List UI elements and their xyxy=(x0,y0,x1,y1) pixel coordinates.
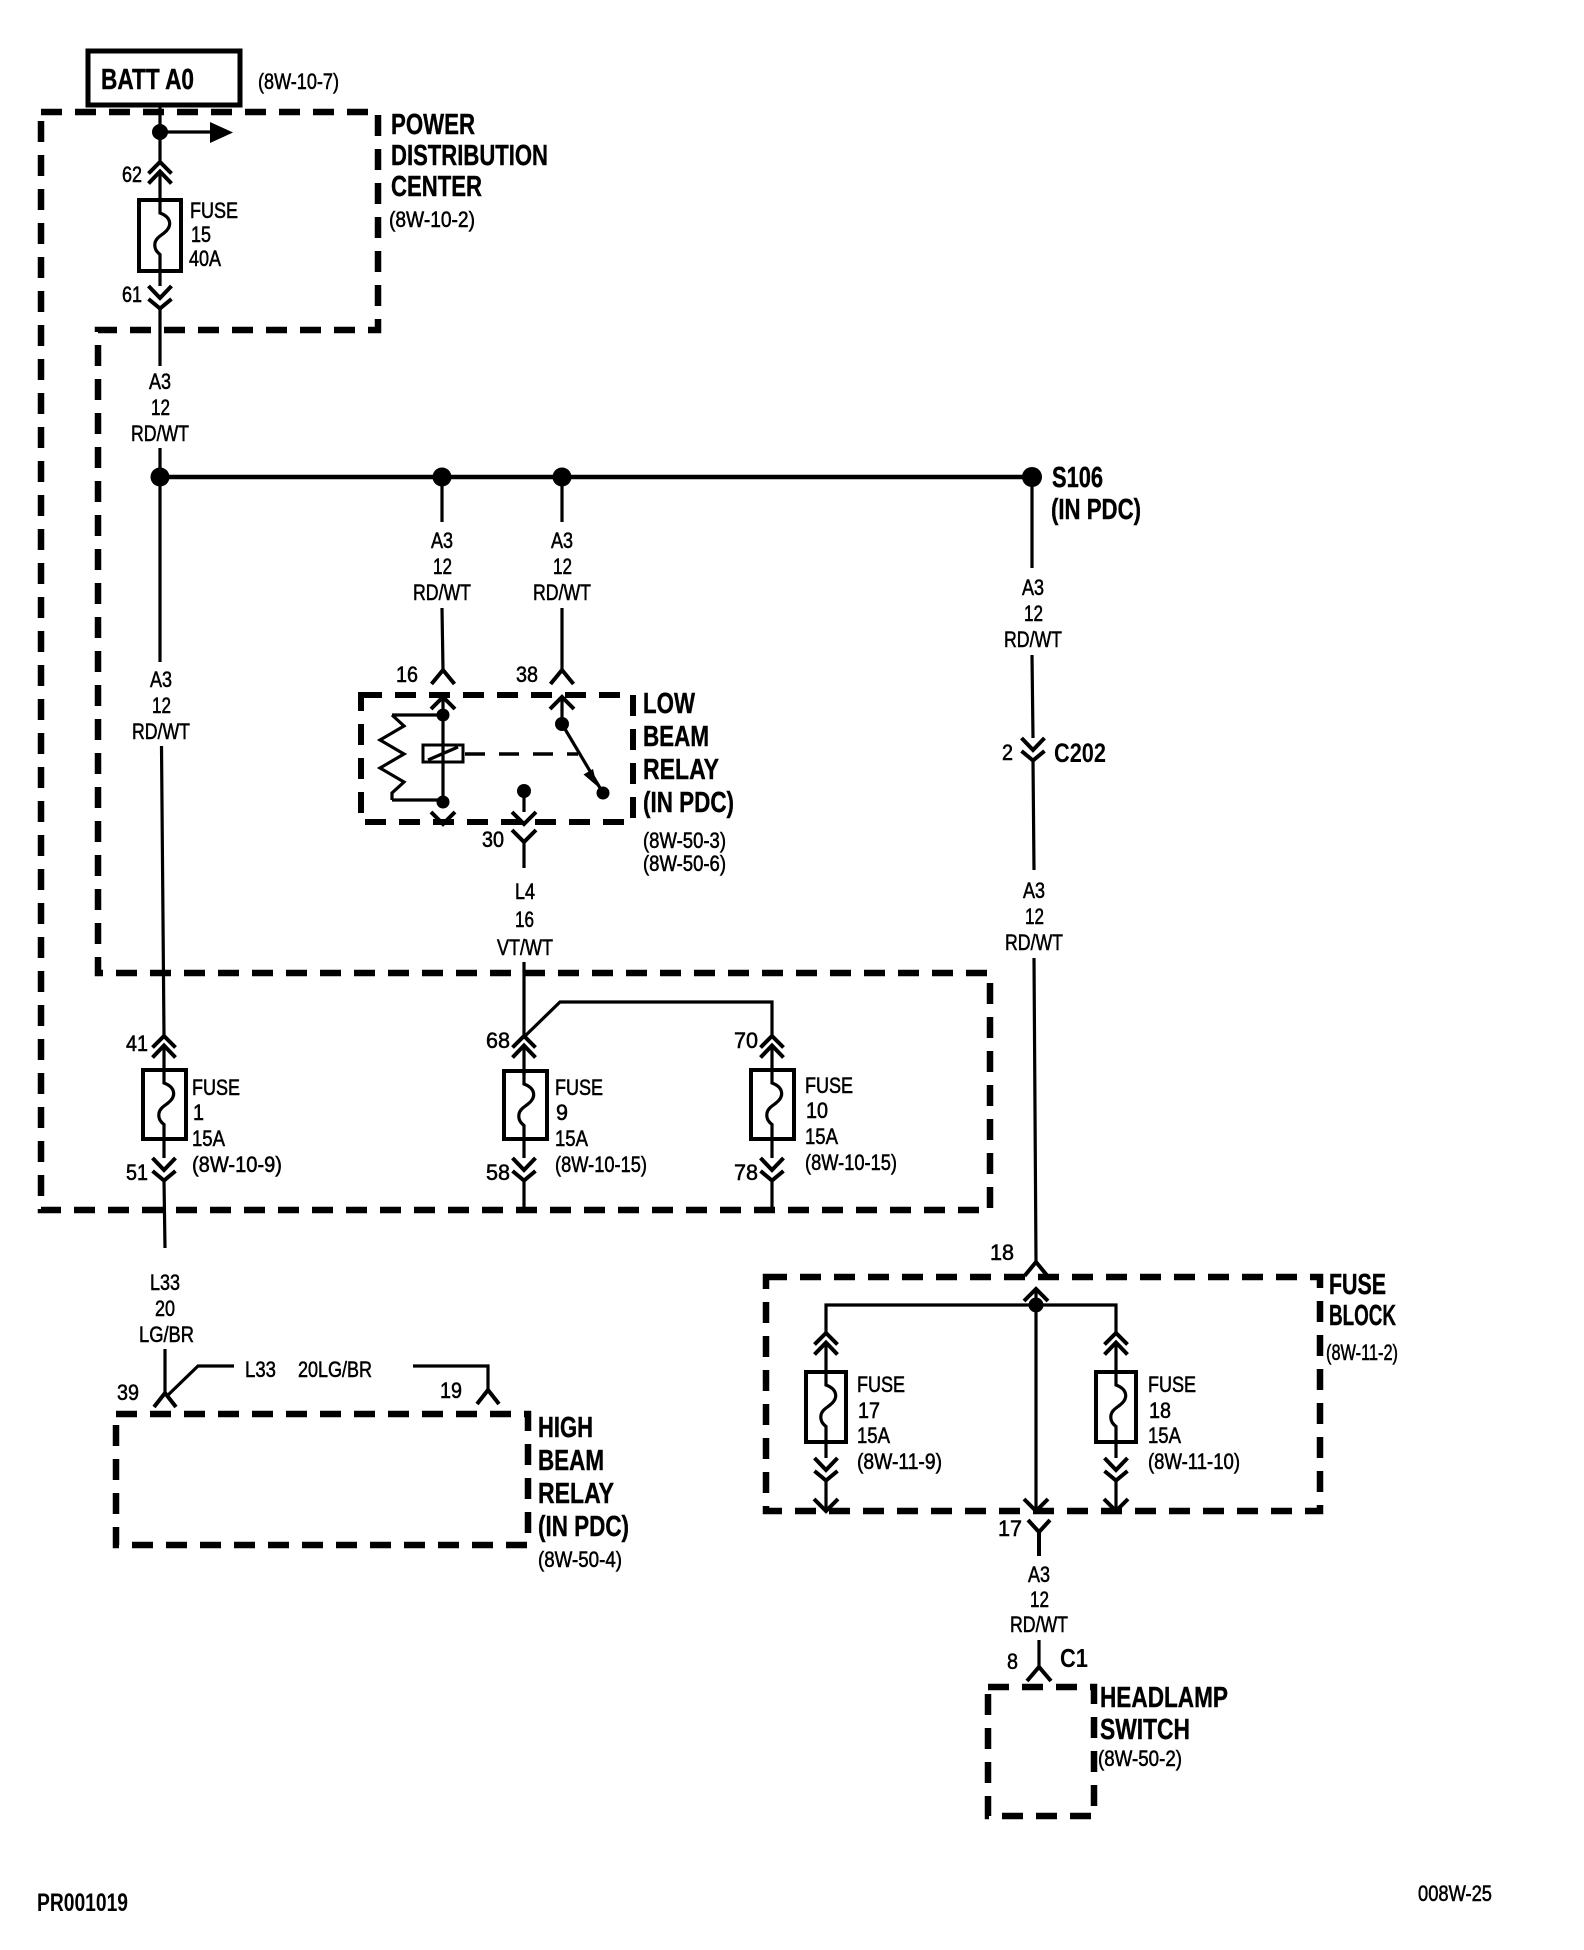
wire below pin 30 xyxy=(522,842,525,868)
wire into fuse 9 xyxy=(522,1046,525,1076)
svg-text:S106: S106 xyxy=(1052,462,1103,494)
connector pin 18 at fuse block edge xyxy=(1024,1262,1048,1301)
svg-text:2: 2 xyxy=(1002,740,1013,765)
wire branch to fuse 10 xyxy=(524,1002,772,1037)
wire below C202 xyxy=(1033,761,1034,871)
svg-text:FUSE: FUSE xyxy=(1329,1269,1386,1301)
svg-text:15A: 15A xyxy=(1148,1423,1181,1448)
connector pin 70 xyxy=(761,1036,784,1058)
wire stub to bus xyxy=(158,448,161,477)
wire down to fuse block xyxy=(1034,958,1036,1262)
svg-text:(IN PDC): (IN PDC) xyxy=(643,787,734,819)
svg-text:VT/WT: VT/WT xyxy=(497,935,553,960)
svg-text:A3: A3 xyxy=(1023,878,1045,903)
relay switch blade xyxy=(562,724,603,793)
fuse 18 pin arrow at edge xyxy=(1104,1499,1128,1511)
node bus branch low beam relay contact xyxy=(553,468,572,487)
wire into fuse 18 xyxy=(1114,1343,1117,1375)
svg-text:15A: 15A xyxy=(192,1126,225,1151)
svg-text:DISTRIBUTION: DISTRIBUTION xyxy=(391,140,548,172)
connector pin 62 xyxy=(149,162,172,184)
wire label A3 12 RD/WT (coil branch) xyxy=(413,528,471,605)
svg-text:19: 19 xyxy=(440,1378,462,1403)
wire fuse 18 to block edge xyxy=(1114,1442,1117,1508)
connector fuse 17 bottom xyxy=(815,1458,838,1481)
connector fuse 18 bottom xyxy=(1105,1458,1128,1481)
svg-text:20: 20 xyxy=(155,1296,175,1321)
wire down to pin 39 xyxy=(163,1349,166,1393)
svg-text:A3: A3 xyxy=(1028,1562,1050,1587)
wire L4 down to fuse row xyxy=(522,962,525,1036)
svg-text:12: 12 xyxy=(1030,1587,1049,1612)
svg-text:FUSE: FUSE xyxy=(857,1372,905,1397)
fuse F9 box xyxy=(504,1071,547,1139)
svg-text:FUSE: FUSE xyxy=(190,198,238,223)
svg-text:FUSE: FUSE xyxy=(555,1075,603,1100)
fuse F17 box xyxy=(806,1372,846,1442)
svg-text:(8W-50-6): (8W-50-6) xyxy=(643,851,726,876)
fuse 15 value label FUSE 15 40A xyxy=(189,198,238,271)
fuse 1 element curve xyxy=(159,1070,174,1139)
label HEADLAMP SWITCH (8W-50-2) xyxy=(1098,1682,1228,1771)
svg-text:17: 17 xyxy=(858,1398,880,1423)
fuse 10 element curve xyxy=(767,1070,782,1139)
connector pin 17 female xyxy=(1028,1520,1050,1556)
wire label L4 16 VT/WT xyxy=(497,879,553,960)
svg-text:A3: A3 xyxy=(150,667,172,692)
fuse block dashed box xyxy=(766,1277,1320,1511)
wire into fuse 10 xyxy=(770,1046,773,1073)
fuse 17 element curve xyxy=(821,1372,836,1442)
connector pin 51 xyxy=(153,1158,176,1181)
svg-text:A3: A3 xyxy=(1022,575,1044,600)
svg-text:16: 16 xyxy=(515,907,534,932)
svg-text:1: 1 xyxy=(193,1100,204,1125)
svg-text:RELAY: RELAY xyxy=(538,1478,614,1510)
wire fuse 17 to block edge xyxy=(824,1442,827,1508)
fuse 15 element curve xyxy=(155,200,170,271)
svg-text:18: 18 xyxy=(990,1240,1014,1265)
wire branch to fuses 17 and 18 xyxy=(826,1305,1116,1333)
fuse F10 box xyxy=(751,1070,794,1139)
node pin 30 xyxy=(517,784,531,798)
svg-text:A3: A3 xyxy=(551,528,573,553)
battery feed B+ box BATT A0 xyxy=(88,51,240,105)
svg-text:LOW: LOW xyxy=(643,688,695,720)
svg-text:15A: 15A xyxy=(555,1126,588,1151)
wire S106 down xyxy=(1030,487,1033,568)
svg-text:L33: L33 xyxy=(245,1357,276,1382)
fuse 18 element curve xyxy=(1111,1372,1126,1442)
label POWER DISTRIBUTION CENTER (8W-10-2) xyxy=(389,109,548,232)
arrow to other circuits xyxy=(160,130,212,133)
svg-text:12: 12 xyxy=(151,395,170,420)
svg-text:15A: 15A xyxy=(857,1423,890,1448)
svg-text:12: 12 xyxy=(553,554,572,579)
fuse 10 value label FUSE 10 15A (8W-10-15) xyxy=(805,1073,897,1175)
wire label A3 12 RD/WT (S106 branch) xyxy=(1004,575,1062,652)
fuse 17 pin arrow at edge xyxy=(814,1499,838,1511)
wire down to pin 16 xyxy=(442,608,443,670)
svg-text:(8W-10-15): (8W-10-15) xyxy=(805,1150,897,1175)
wire from fuse 15 to bus xyxy=(158,271,161,366)
svg-text:(8W-50-3): (8W-50-3) xyxy=(643,828,726,853)
dashed actuator link xyxy=(465,752,578,756)
wire label A3 12 RD/WT (contact branch) xyxy=(533,528,591,605)
svg-text:(8W-11-2): (8W-11-2) xyxy=(1326,1340,1398,1365)
connector fuse 18 top xyxy=(1105,1333,1128,1355)
svg-text:16: 16 xyxy=(396,662,418,687)
node S106 xyxy=(1022,467,1042,487)
svg-text:61: 61 xyxy=(122,282,142,307)
svg-text:78: 78 xyxy=(734,1160,758,1185)
svg-text:RD/WT: RD/WT xyxy=(533,580,591,605)
svg-text:CENTER: CENTER xyxy=(391,171,482,203)
connector C202 xyxy=(1022,738,1045,761)
svg-text:15A: 15A xyxy=(805,1124,838,1149)
wire label A3 12 RD/WT (to headlamp switch) xyxy=(1010,1562,1068,1637)
svg-text:(8W-10-15): (8W-10-15) xyxy=(555,1152,647,1177)
svg-text:17: 17 xyxy=(998,1516,1022,1541)
svg-text:RD/WT: RD/WT xyxy=(1010,1612,1068,1637)
connector pin 58 xyxy=(513,1158,536,1181)
svg-text:(8W-10-2): (8W-10-2) xyxy=(389,207,475,232)
svg-text:(8W-50-2): (8W-50-2) xyxy=(1098,1746,1182,1771)
svg-text:40A: 40A xyxy=(189,246,221,271)
label LOW BEAM RELAY (IN PDC) (8W-50-3) (8W-50-6) xyxy=(643,688,734,876)
svg-text:41: 41 xyxy=(126,1031,148,1056)
fuse 9 element curve xyxy=(519,1071,534,1139)
node at top of PDC feed xyxy=(152,124,168,140)
fuse 17 value label FUSE 17 15A (8W-11-9) xyxy=(857,1372,942,1474)
connector pin 68 xyxy=(513,1036,536,1058)
svg-text:12: 12 xyxy=(1024,601,1043,626)
fuse F1 box xyxy=(143,1070,186,1139)
wire into fuse 1 xyxy=(162,1046,165,1073)
svg-text:FUSE: FUSE xyxy=(1148,1372,1196,1397)
svg-text:FUSE: FUSE xyxy=(805,1073,853,1098)
svg-text:(IN PDC): (IN PDC) xyxy=(1051,494,1141,526)
wire bus down to relay contact branch xyxy=(560,477,563,522)
label HIGH BEAM RELAY (IN PDC) (8W-50-4) xyxy=(538,1412,629,1572)
svg-text:SWITCH: SWITCH xyxy=(1100,1714,1190,1746)
node fuse block junction xyxy=(1029,1298,1044,1313)
relay coil K1 xyxy=(423,745,463,762)
connector pin 61 xyxy=(149,286,172,309)
wire pin16 into coil node xyxy=(441,697,444,802)
svg-text:70: 70 xyxy=(734,1028,758,1053)
fuse F15 box xyxy=(139,200,181,271)
fuse 1 value label FUSE 1 15A (8W-10-9) xyxy=(192,1075,282,1177)
connector pin 19 female xyxy=(477,1390,499,1404)
svg-text:38: 38 xyxy=(516,662,538,687)
svg-text:20LG/BR: 20LG/BR xyxy=(298,1357,372,1382)
connector pin 8 female xyxy=(1027,1667,1051,1681)
splice bus S106 xyxy=(160,475,1032,480)
wire from fuse 1 down through PDC edge xyxy=(164,1139,165,1248)
wire label pointer L33 20LG/BR xyxy=(167,1357,488,1396)
wire from BATT A0 down to node xyxy=(158,105,161,162)
wire bus down to relay coil branch xyxy=(440,477,443,522)
relay contact end node xyxy=(597,787,610,800)
svg-text:RD/WT: RD/WT xyxy=(131,421,189,446)
relay suppression resistor xyxy=(380,715,443,800)
svg-text:68: 68 xyxy=(486,1028,510,1053)
svg-text:10: 10 xyxy=(806,1098,828,1123)
svg-text:BLOCK: BLOCK xyxy=(1329,1300,1396,1332)
wire pin38 to pivot xyxy=(560,697,563,720)
node relay coil bottom xyxy=(437,796,450,809)
svg-text:C202: C202 xyxy=(1054,738,1106,768)
low beam relay box (IN PDC) xyxy=(361,695,633,822)
svg-text:L33: L33 xyxy=(150,1270,180,1295)
node relay coil top xyxy=(437,709,450,722)
connector pin 38 at relay edge xyxy=(550,670,574,709)
svg-text:HEADLAMP: HEADLAMP xyxy=(1100,1682,1228,1714)
wire center feed through fuse block xyxy=(1034,1305,1037,1508)
wire pin 18 to junction xyxy=(1034,1289,1037,1305)
svg-text:(8W-50-4): (8W-50-4) xyxy=(538,1547,622,1572)
svg-text:12: 12 xyxy=(152,693,171,718)
wire down to C1 xyxy=(1037,1640,1040,1667)
svg-text:RD/WT: RD/WT xyxy=(1004,627,1062,652)
svg-text:18: 18 xyxy=(1149,1398,1171,1423)
wire down to pin 38 xyxy=(560,608,563,670)
svg-text:PR001019: PR001019 xyxy=(37,1889,128,1917)
pin 17 arrow at block edge xyxy=(1024,1499,1048,1511)
svg-text:LG/BR: LG/BR xyxy=(139,1322,194,1347)
svg-text:L4: L4 xyxy=(515,879,535,904)
wire pin 30 down xyxy=(522,791,525,812)
svg-text:(8W-10-7): (8W-10-7) xyxy=(258,69,339,94)
svg-text:62: 62 xyxy=(122,162,142,187)
wire label A3 12 RD/WT (below C202) xyxy=(1005,878,1063,955)
svg-text:(8W-10-9): (8W-10-9) xyxy=(192,1152,282,1177)
svg-text:30: 30 xyxy=(482,827,504,852)
high beam relay box (IN PDC) xyxy=(116,1414,528,1545)
svg-text:FUSE: FUSE xyxy=(192,1075,240,1100)
relay contact pivot node xyxy=(555,717,569,731)
wire label A3 12 RD/WT (upper left) xyxy=(131,369,189,446)
connector pin 41 xyxy=(153,1036,176,1058)
svg-text:9: 9 xyxy=(556,1100,568,1125)
wire fuse 10 to PDC edge xyxy=(770,1139,773,1209)
svg-text:51: 51 xyxy=(126,1160,148,1185)
svg-text:POWER: POWER xyxy=(391,109,475,141)
svg-text:(8W-11-10): (8W-11-10) xyxy=(1148,1449,1240,1474)
headlamp switch dashed box xyxy=(988,1687,1094,1816)
power distribution center dashed outline xyxy=(41,112,990,1210)
svg-text:58: 58 xyxy=(486,1160,510,1185)
svg-text:C1: C1 xyxy=(1060,1643,1088,1673)
connector pin 30 at relay edge xyxy=(512,812,536,842)
svg-text:12: 12 xyxy=(433,554,452,579)
svg-text:RD/WT: RD/WT xyxy=(413,580,471,605)
wire label A3 12 RD/WT (left branch) xyxy=(132,667,190,744)
relay coil ground pin arrow at edge xyxy=(431,812,455,824)
connector pin 16 at relay edge xyxy=(431,670,455,709)
svg-text:BEAM: BEAM xyxy=(538,1445,604,1477)
svg-text:(IN PDC): (IN PDC) xyxy=(538,1511,629,1543)
wire into fuse 15 xyxy=(158,172,161,203)
label FUSE BLOCK (8W-11-2) xyxy=(1326,1269,1398,1365)
wire left branch down to fuse 1 xyxy=(162,746,165,1036)
fuse F18 box xyxy=(1096,1372,1136,1442)
wire bus down left branch xyxy=(158,477,161,662)
svg-text:BATT A0: BATT A0 xyxy=(101,64,194,96)
svg-text:RD/WT: RD/WT xyxy=(1005,930,1063,955)
connector pin 78 xyxy=(761,1158,784,1181)
svg-text:BEAM: BEAM xyxy=(643,721,709,753)
svg-text:HIGH: HIGH xyxy=(538,1412,593,1444)
wire into fuse 17 xyxy=(824,1343,827,1375)
svg-text:A3: A3 xyxy=(149,369,171,394)
node bus branch low beam relay coil xyxy=(433,468,452,487)
svg-text:008W-25: 008W-25 xyxy=(1418,1881,1492,1906)
blade arrowhead xyxy=(584,769,598,786)
svg-text:15: 15 xyxy=(191,222,211,247)
fuse 9 value label FUSE 9 15A (8W-10-15) xyxy=(555,1075,647,1177)
connector pin 39 female xyxy=(154,1393,176,1407)
connector fuse 17 top xyxy=(815,1333,838,1355)
wire fuse 9 to PDC edge xyxy=(522,1139,525,1209)
fuse 18 value label FUSE 18 15A (8W-11-10) xyxy=(1148,1372,1240,1474)
wire down to C202 xyxy=(1032,655,1033,738)
svg-text:RD/WT: RD/WT xyxy=(132,719,190,744)
svg-text:39: 39 xyxy=(117,1380,139,1405)
node left on bus xyxy=(151,468,170,487)
svg-text:A3: A3 xyxy=(431,528,453,553)
svg-text:12: 12 xyxy=(1025,904,1044,929)
svg-text:8: 8 xyxy=(1007,1649,1018,1674)
label S106 (IN PDC) xyxy=(1051,462,1141,526)
svg-text:(8W-11-9): (8W-11-9) xyxy=(857,1449,942,1474)
wire label L33 20 LG/BR xyxy=(139,1270,194,1347)
svg-text:RELAY: RELAY xyxy=(643,754,719,786)
